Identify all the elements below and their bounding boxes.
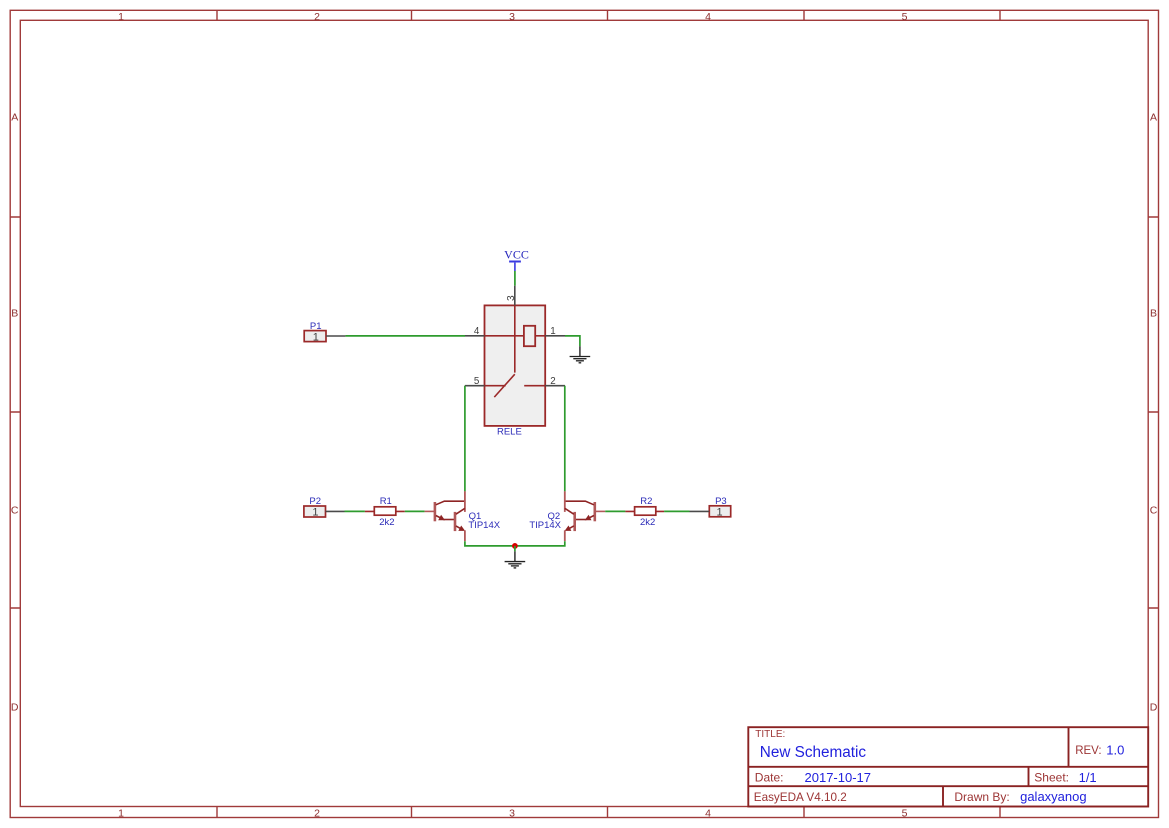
svg-text:1: 1 [550,326,555,337]
wire VCC to relay pin 3 [514,271,516,286]
svg-text:1: 1 [313,331,319,343]
svg-text:C: C [1150,505,1158,517]
wire emitters rail [465,541,565,546]
svg-text:Drawn By:: Drawn By: [954,790,1009,804]
svg-text:B: B [11,308,18,320]
svg-text:B: B [1150,308,1157,320]
svg-text:A: A [11,112,18,124]
transistor Q2 [529,491,605,541]
resistor R2 [625,496,664,528]
svg-text:R1: R1 [380,496,392,507]
svg-text:1: 1 [717,507,723,519]
svg-text:4: 4 [705,11,711,23]
ground at relay pin 1 [570,346,591,363]
svg-text:Sheet:: Sheet: [1034,771,1069,785]
svg-text:galaxyanog: galaxyanog [1020,789,1087,804]
junction node [512,543,518,549]
svg-text:VCC: VCC [504,248,529,262]
wire relay pin 1 to ground [565,336,580,346]
svg-text:1.0: 1.0 [1106,743,1124,758]
wire relay pin 5 to Q1 collector [464,386,466,492]
svg-text:A: A [1150,112,1157,124]
svg-text:3: 3 [506,295,517,301]
svg-text:REV:: REV: [1075,745,1101,757]
resistor R1 [365,496,405,528]
wire P2 to R1 [345,510,365,512]
svg-text:3: 3 [509,807,515,819]
svg-text:D: D [11,702,19,714]
svg-text:5: 5 [902,11,908,23]
svg-text:2: 2 [550,376,555,387]
pin P3 [690,496,731,519]
svg-text:2k2: 2k2 [640,517,655,528]
ground at emitters [505,551,526,568]
wire relay pin 2 to Q2 collector [564,386,566,492]
wire Q2 base to R2 [605,510,625,512]
svg-text:TIP14X: TIP14X [529,520,561,531]
svg-text:5: 5 [902,807,908,819]
svg-text:TITLE:: TITLE: [755,729,785,740]
svg-text:5: 5 [474,376,480,387]
wire P1 to relay pin 4 [345,335,465,337]
relay RELE [465,286,565,438]
svg-text:P2: P2 [309,496,321,507]
svg-text:TIP14X: TIP14X [468,520,500,531]
svg-text:R2: R2 [640,496,652,507]
svg-text:C: C [11,505,19,517]
pin P1 [304,321,345,343]
svg-text:1: 1 [312,507,318,519]
svg-text:2k2: 2k2 [379,517,394,528]
wire R1 to Q1 base [405,510,425,512]
svg-text:EasyEDA V4.10.2: EasyEDA V4.10.2 [754,791,847,804]
svg-text:1: 1 [118,807,124,819]
transistor Q1 [425,491,501,541]
svg-text:1: 1 [118,11,124,23]
svg-text:4: 4 [705,807,711,819]
svg-text:2: 2 [314,807,320,819]
svg-text:P1: P1 [310,321,322,332]
power flag VCC [504,248,529,271]
svg-text:D: D [1150,702,1158,714]
pin P2 [304,496,345,519]
svg-text:2: 2 [314,11,320,23]
svg-text:3: 3 [509,11,515,23]
svg-text:RELE: RELE [497,427,522,438]
svg-text:P3: P3 [715,496,727,507]
wire R2 to P3 [664,510,689,512]
svg-text:2017-10-17: 2017-10-17 [805,770,872,785]
svg-text:1/1: 1/1 [1079,770,1097,785]
wire junction to ground [514,546,516,552]
svg-text:New Schematic: New Schematic [760,744,867,761]
svg-text:4: 4 [474,326,480,337]
svg-text:Date:: Date: [755,771,784,785]
